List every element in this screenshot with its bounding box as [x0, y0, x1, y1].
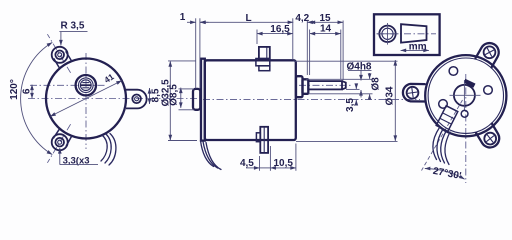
svg-text:L: L: [245, 13, 251, 24]
svg-text:27°30': 27°30': [432, 166, 462, 182]
svg-text:41: 41: [102, 71, 116, 85]
svg-text:10,5: 10,5: [273, 158, 293, 169]
svg-text:120°: 120°: [9, 79, 20, 100]
svg-text:14: 14: [320, 24, 332, 35]
svg-text:R 3,5: R 3,5: [61, 21, 85, 32]
svg-text:3,5: 3,5: [345, 98, 356, 112]
svg-text:Ø34: Ø34: [384, 86, 395, 105]
svg-text:1: 1: [180, 12, 186, 23]
svg-text:6: 6: [21, 88, 32, 94]
svg-text:Ø8: Ø8: [370, 77, 381, 91]
svg-text:Ø8,5: Ø8,5: [169, 84, 180, 106]
svg-text:16,5: 16,5: [270, 24, 290, 35]
svg-text:4,5: 4,5: [240, 158, 254, 169]
